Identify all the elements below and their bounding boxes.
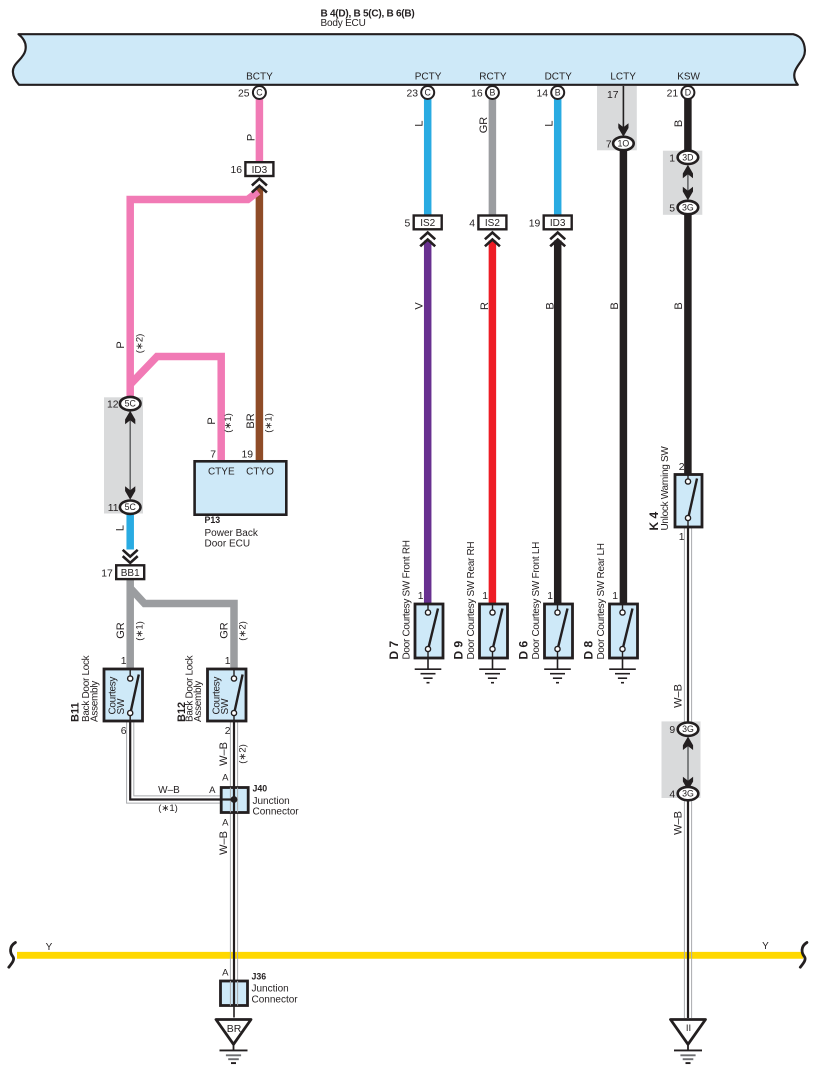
chevron arrows below ID3 (19) <box>550 233 565 247</box>
back door lock assembly B12 <box>208 656 247 737</box>
svg-text:K 4: K 4 <box>647 512 661 531</box>
svg-text:LCTY: LCTY <box>610 72 636 83</box>
wire B black 1O to D8 <box>620 150 628 605</box>
svg-text:Junction: Junction <box>253 796 290 807</box>
svg-text:1: 1 <box>669 153 675 164</box>
svg-text:W–B: W–B <box>218 831 230 855</box>
inline connector oval 11 5C <box>120 501 141 514</box>
connector circle D pin 21 <box>681 86 694 99</box>
wire B black 3G to K4 <box>684 214 692 475</box>
svg-text:Assembly: Assembly <box>193 681 204 722</box>
svg-text:1O: 1O <box>618 139 630 149</box>
svg-text:J36: J36 <box>252 972 267 982</box>
svg-text:19: 19 <box>241 450 253 461</box>
junction box 16 ID3 <box>245 162 273 176</box>
shaded connector area 3D/3G <box>663 151 702 215</box>
svg-text:(∗1): (∗1) <box>264 413 275 433</box>
yellow bus left break squiggle <box>9 943 16 968</box>
inline connector oval 1 3D <box>678 151 699 164</box>
svg-text:B: B <box>555 88 561 98</box>
ground triangle BR <box>216 1020 251 1045</box>
inline connector oval 7 1O <box>613 137 634 150</box>
svg-text:ID3: ID3 <box>550 218 566 229</box>
svg-text:BCTY: BCTY <box>246 72 273 83</box>
svg-text:21: 21 <box>667 89 679 100</box>
ground for D9 <box>479 658 506 683</box>
svg-text:1: 1 <box>225 656 231 667</box>
yellow bus right break squiggle <box>800 943 807 968</box>
svg-text:Door Courtesy SW Front RH: Door Courtesy SW Front RH <box>402 540 413 659</box>
svg-text:Assembly: Assembly <box>90 681 101 722</box>
svg-text:5: 5 <box>669 204 675 215</box>
connector circle C pin 25 <box>253 86 266 99</box>
svg-text:KSW: KSW <box>677 72 700 83</box>
P13 Power Back Door ECU box <box>195 461 287 514</box>
inline connector oval 9 3G <box>678 723 699 736</box>
svg-text:SW: SW <box>220 698 231 715</box>
door courtesy switch D6 <box>545 591 573 658</box>
svg-text:B: B <box>609 302 621 309</box>
svg-text:Door Courtesy SW Front LH: Door Courtesy SW Front LH <box>531 542 542 660</box>
svg-text:1: 1 <box>612 591 618 602</box>
svg-text:W–B: W–B <box>218 742 230 766</box>
svg-text:7: 7 <box>606 140 612 151</box>
arrow pair between 3G connectors <box>687 739 689 788</box>
svg-text:J40: J40 <box>253 784 268 794</box>
svg-text:Junction: Junction <box>252 984 289 995</box>
chevron arrows below ID3 <box>252 179 267 193</box>
svg-text:17: 17 <box>607 90 619 101</box>
svg-text:16: 16 <box>230 165 242 176</box>
wire P pink branch to 5C <box>130 192 258 398</box>
chevron arrows below IS2 (5) <box>420 233 435 247</box>
svg-text:GR: GR <box>219 622 231 639</box>
svg-text:IS2: IS2 <box>485 218 500 229</box>
svg-text:1: 1 <box>482 591 488 602</box>
svg-text:14: 14 <box>536 89 548 100</box>
svg-text:A: A <box>209 785 216 796</box>
arrow pair between 5C connectors <box>129 414 131 496</box>
wire P pink branch to P13 CTYE <box>130 357 221 462</box>
junction connector J36 <box>221 981 248 1006</box>
svg-text:CTYE: CTYE <box>208 467 235 478</box>
svg-text:L: L <box>544 120 556 126</box>
svg-text:2: 2 <box>679 462 685 473</box>
svg-text:C: C <box>256 88 263 98</box>
svg-text:23: 23 <box>406 89 418 100</box>
svg-text:D 8: D 8 <box>582 641 596 660</box>
svg-text:12: 12 <box>107 400 119 411</box>
svg-text:Unlock Warning SW: Unlock Warning SW <box>660 446 671 531</box>
svg-text:Body ECU: Body ECU <box>321 18 366 29</box>
svg-text:2: 2 <box>225 726 231 737</box>
chevron arrows above BB1 <box>123 550 138 563</box>
svg-text:9: 9 <box>669 725 675 736</box>
earth symbol left <box>220 1050 248 1063</box>
connector circle C pin 23 <box>421 86 434 99</box>
svg-text:Power Back: Power Back <box>205 528 259 539</box>
svg-text:B: B <box>545 302 557 309</box>
svg-text:Connector: Connector <box>253 807 300 818</box>
svg-text:5: 5 <box>405 219 411 230</box>
svg-text:CTYO: CTYO <box>246 467 274 478</box>
svg-text:7: 7 <box>210 450 216 461</box>
shaded connector area 3G/3G lower <box>662 721 701 798</box>
svg-text:IS2: IS2 <box>420 218 435 229</box>
svg-text:P: P <box>246 134 258 141</box>
svg-text:(∗1): (∗1) <box>135 621 146 641</box>
svg-text:19: 19 <box>529 219 541 230</box>
svg-text:17: 17 <box>101 568 113 579</box>
svg-text:D: D <box>685 88 691 98</box>
svg-text:L: L <box>115 525 127 531</box>
svg-text:P: P <box>206 417 218 424</box>
svg-text:3G: 3G <box>682 724 694 734</box>
wire W-B from B12 pin2 through J40 to J36 <box>230 721 237 982</box>
wire GR gray branch to B12 <box>130 588 234 669</box>
svg-text:P: P <box>115 341 127 348</box>
svg-text:A: A <box>222 968 229 979</box>
svg-text:3G: 3G <box>682 789 694 799</box>
svg-text:4: 4 <box>669 790 675 801</box>
svg-text:Y: Y <box>46 942 53 953</box>
svg-text:Door ECU: Door ECU <box>205 539 251 550</box>
unlock warning switch K4 <box>675 462 702 543</box>
svg-text:ID3: ID3 <box>252 165 268 176</box>
ground stem from J36 <box>233 1006 235 1018</box>
svg-text:BB1: BB1 <box>121 568 140 579</box>
svg-text:W–B: W–B <box>673 811 685 835</box>
wire W-B from 3G to ground II <box>684 800 691 1018</box>
svg-text:D 6: D 6 <box>517 641 531 660</box>
svg-text:P13: P13 <box>205 515 221 525</box>
ground triangle II <box>671 1020 706 1045</box>
svg-text:W–B: W–B <box>673 684 685 708</box>
svg-text:3D: 3D <box>682 152 693 162</box>
inline connector oval 4 3G <box>678 787 699 800</box>
wire R red IS2 to D9 <box>489 241 497 605</box>
svg-text:1: 1 <box>418 591 424 602</box>
svg-text:II: II <box>686 1023 691 1034</box>
svg-text:GR: GR <box>478 117 490 134</box>
svg-text:4: 4 <box>469 219 475 230</box>
svg-text:V: V <box>414 302 426 310</box>
door courtesy switch D7 <box>415 591 443 658</box>
svg-text:L: L <box>414 120 426 126</box>
svg-text:11: 11 <box>108 503 119 514</box>
connector circle B pin 14 <box>551 86 564 99</box>
wire yellow bus Y <box>17 952 803 959</box>
svg-text:(∗2): (∗2) <box>135 334 146 354</box>
arrow pair between 3D and 3G <box>687 167 689 198</box>
shaded connector area LCTY/1O <box>597 86 637 150</box>
svg-text:(∗2): (∗2) <box>238 744 249 764</box>
svg-text:Door Courtesy SW Rear LH: Door Courtesy SW Rear LH <box>596 543 607 659</box>
wire GR gray RCTY to IS2 <box>489 98 497 216</box>
svg-text:BR: BR <box>227 1023 242 1035</box>
ground for D7 <box>415 658 442 683</box>
svg-text:6: 6 <box>121 726 127 737</box>
ground for D6 <box>544 658 571 683</box>
svg-text:A: A <box>222 818 229 829</box>
svg-text:(∗1): (∗1) <box>223 413 234 433</box>
svg-text:3G: 3G <box>682 203 694 213</box>
door courtesy switch D9 <box>480 591 508 658</box>
back door lock assembly B11 <box>104 656 143 737</box>
Body ECU band <box>13 34 805 85</box>
junction box 4 IS2 <box>478 216 506 230</box>
wire V violet IS2 to D7 <box>424 241 432 605</box>
inline connector oval 5 3G <box>678 201 699 214</box>
wire B black ID3 to D6 <box>554 241 562 605</box>
svg-text:1: 1 <box>121 656 127 667</box>
svg-text:Connector: Connector <box>252 995 299 1006</box>
chevron arrows below IS2 (4) <box>485 233 500 247</box>
svg-text:16: 16 <box>471 89 483 100</box>
svg-text:(∗1): (∗1) <box>158 803 178 814</box>
svg-text:D 9: D 9 <box>452 641 466 660</box>
svg-text:A: A <box>222 773 229 784</box>
svg-text:B: B <box>489 88 495 98</box>
svg-text:(∗2): (∗2) <box>238 621 249 641</box>
wire L blue DCTY to ID3 <box>554 98 562 216</box>
svg-text:W–B: W–B <box>158 785 180 796</box>
svg-text:Door Courtesy SW Rear RH: Door Courtesy SW Rear RH <box>466 542 477 660</box>
junction box 17 BB1 <box>116 565 144 579</box>
svg-text:25: 25 <box>238 89 250 100</box>
shaded connector area 5C <box>104 397 143 513</box>
wire W-B from K4 pin1 to 3G <box>684 526 691 723</box>
inline connector oval 12 5C <box>120 397 141 410</box>
svg-text:GR: GR <box>115 622 127 639</box>
svg-text:PCTY: PCTY <box>415 72 442 83</box>
svg-text:SW: SW <box>116 698 127 715</box>
connector circle B pin 16 <box>486 86 499 99</box>
wire L blue 5C to BB1 <box>126 514 134 550</box>
svg-text:5C: 5C <box>125 502 137 512</box>
svg-text:C: C <box>425 88 432 98</box>
junction connector J40 <box>221 788 248 813</box>
svg-text:B: B <box>673 120 685 127</box>
svg-text:R: R <box>479 302 491 310</box>
svg-text:D 7: D 7 <box>387 641 401 660</box>
wire BR brown ID3 to P13 CTYO <box>256 187 264 462</box>
wire GR gray BB1 to B11 <box>126 580 134 670</box>
door courtesy switch D8 <box>610 591 638 658</box>
svg-text:RCTY: RCTY <box>479 72 507 83</box>
wire L blue PCTY to IS2 <box>424 98 432 216</box>
junction box 19 ID3 <box>544 216 572 230</box>
svg-text:B11: B11 <box>70 702 82 722</box>
wire B black KSW to 3D <box>684 98 692 152</box>
svg-text:DCTY: DCTY <box>545 72 573 83</box>
svg-text:5C: 5C <box>125 399 137 409</box>
svg-text:B: B <box>673 302 685 309</box>
svg-text:1: 1 <box>679 532 685 543</box>
wire P pink BCTY to ID3 <box>256 98 264 163</box>
junction box 5 IS2 <box>414 216 442 230</box>
svg-text:Y: Y <box>762 941 769 952</box>
wire W-B from B11 pin6 to J40 <box>127 721 222 803</box>
svg-text:BR: BR <box>245 413 257 428</box>
svg-text:1: 1 <box>547 591 553 602</box>
ground for D8 <box>609 658 636 683</box>
earth symbol right <box>674 1050 702 1063</box>
